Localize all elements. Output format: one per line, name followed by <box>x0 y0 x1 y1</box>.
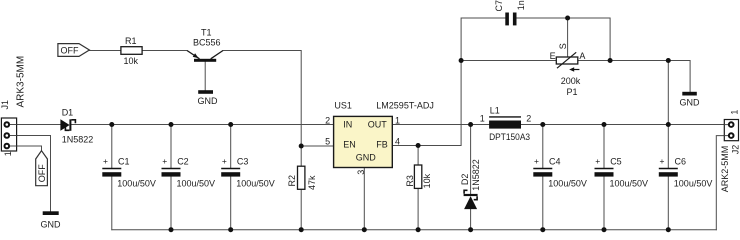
wire IC pin4 FB to feedback riser <box>392 18 505 146</box>
svg-text:4: 4 <box>395 137 400 147</box>
wire R3 bottom <box>417 188 419 229</box>
svg-text:C2: C2 <box>177 157 189 167</box>
wire C2 top <box>170 125 172 169</box>
svg-text:GND: GND <box>41 219 62 229</box>
svg-text:OFF: OFF <box>37 164 47 182</box>
wire C3 bottom <box>230 177 232 230</box>
svg-text:1: 1 <box>730 110 740 115</box>
svg-text:ARK3-5MM: ARK3-5MM <box>16 56 27 108</box>
resistor R2 <box>287 166 317 190</box>
wire C5 top <box>603 125 605 169</box>
capacitor C2 <box>162 156 216 189</box>
svg-text:J1: J1 <box>0 100 10 110</box>
wire EN node to IC pin5 <box>301 145 333 147</box>
svg-text:1: 1 <box>395 116 400 126</box>
wire C2 bottom <box>170 177 172 230</box>
wire R1 to T1 emitter <box>142 50 187 52</box>
svg-text:C3: C3 <box>237 157 249 167</box>
IC US1 LM2595T-ADJ <box>325 101 434 175</box>
svg-text:1N5822: 1N5822 <box>62 134 94 144</box>
wire IC pin1 OUT to L1 pin1 <box>392 124 489 126</box>
svg-text:100u/50V: 100u/50V <box>177 178 216 188</box>
svg-text:GND: GND <box>198 96 219 106</box>
capacitor C4 <box>533 156 587 189</box>
wire C7 right plate to pot riser <box>517 18 611 61</box>
svg-text:1n: 1n <box>516 0 526 10</box>
svg-text:R3: R3 <box>405 175 415 187</box>
wire R2 bottom <box>300 189 302 229</box>
wire C4 top <box>542 125 544 169</box>
svg-text:US1: US1 <box>334 101 352 111</box>
svg-text:S: S <box>558 43 568 49</box>
svg-text:L1: L1 <box>490 106 500 116</box>
svg-text:1: 1 <box>480 113 485 123</box>
ground at J1 <box>41 211 62 229</box>
svg-text:C5: C5 <box>610 157 622 167</box>
svg-text:+: + <box>660 156 665 166</box>
svg-text:5: 5 <box>325 137 330 147</box>
svg-text:A: A <box>579 51 585 61</box>
svg-text:200k: 200k <box>561 76 581 86</box>
wire J2 pin2 to ground rail <box>716 136 724 230</box>
svg-text:E: E <box>550 51 556 61</box>
net flag OFF (top) <box>58 44 90 57</box>
svg-text:100u/50V: 100u/50V <box>548 178 587 188</box>
capacitor C5 <box>595 156 649 189</box>
wire C1 top <box>111 125 113 169</box>
transistor T1 BC556 <box>187 28 223 62</box>
svg-text:D2: D2 <box>460 174 470 186</box>
svg-text:FB: FB <box>376 140 388 150</box>
adjustment arrow <box>572 69 580 71</box>
svg-text:+: + <box>222 156 227 166</box>
wire J1 pin1 to OFF flag <box>17 146 42 151</box>
capacitor C7 <box>494 0 526 25</box>
svg-text:T1: T1 <box>201 28 212 38</box>
wire S wiper riser <box>567 18 569 60</box>
svg-text:OFF: OFF <box>61 46 79 56</box>
net flag OFF (bottom) <box>36 151 48 186</box>
capacitor C3 <box>221 156 275 189</box>
capacitor C6 <box>659 156 713 189</box>
ground top right <box>680 92 701 108</box>
svg-text:C1: C1 <box>118 157 130 167</box>
wire D2 anode to rail <box>470 209 472 230</box>
wire R2 top <box>300 146 302 166</box>
wire T1 collector to EN node <box>223 51 301 147</box>
svg-text:OUT: OUT <box>368 119 388 129</box>
svg-text:100u/50V: 100u/50V <box>674 178 713 188</box>
svg-text:C4: C4 <box>549 157 561 167</box>
svg-text:R1: R1 <box>125 36 137 46</box>
svg-text:IN: IN <box>343 119 352 129</box>
svg-text:+: + <box>162 156 167 166</box>
potentiometer P1 <box>550 43 586 97</box>
resistor R1 <box>121 36 142 66</box>
wire R3 top <box>417 146 419 166</box>
svg-text:BC556: BC556 <box>193 37 221 47</box>
svg-text:100u/50V: 100u/50V <box>236 178 275 188</box>
svg-text:10k: 10k <box>124 56 139 66</box>
ground under T1 <box>198 90 219 106</box>
wire L1 pin2 to J2 pin1 (output rail) <box>521 124 724 126</box>
wire pot line to output rail <box>667 61 669 125</box>
connector J2 ARK2-5MM <box>720 110 740 193</box>
svg-text:GND: GND <box>356 153 377 163</box>
wire C5 bottom <box>603 177 605 230</box>
wire IC pin3 GND to rail <box>363 168 365 230</box>
wire C6 top <box>667 125 669 169</box>
wire J1 pin2 to GND <box>17 136 51 212</box>
wire A-side of pot line to top GND <box>578 61 690 92</box>
wire C3 top <box>230 125 232 169</box>
wire D1 cathode to IC pin2 (input rail) <box>71 124 333 126</box>
svg-text:D1: D1 <box>62 107 74 117</box>
svg-text:+: + <box>534 156 539 166</box>
svg-text:LM2595T-ADJ: LM2595T-ADJ <box>376 101 434 111</box>
svg-text:C7: C7 <box>494 0 504 12</box>
svg-text:1: 1 <box>3 151 13 156</box>
svg-text:2: 2 <box>325 116 330 126</box>
svg-text:J2: J2 <box>730 145 740 155</box>
svg-text:R2: R2 <box>287 175 297 187</box>
connector J1 ARK3-5MM <box>0 56 26 156</box>
resistor R3 <box>405 165 432 188</box>
wire ground rail <box>112 229 717 231</box>
svg-text:10k: 10k <box>422 173 432 188</box>
wire OFF flag to R1 <box>89 50 121 52</box>
svg-text:3: 3 <box>356 170 366 175</box>
svg-text:100u/50V: 100u/50V <box>117 178 156 188</box>
wire J1 pin3 to D1 anode <box>17 124 61 126</box>
capacitor C1 <box>102 156 156 189</box>
diode D1 1N5822 <box>60 107 93 144</box>
svg-text:P1: P1 <box>567 87 578 97</box>
svg-text:C6: C6 <box>675 157 687 167</box>
wire C1 bottom <box>111 177 113 230</box>
inductor L1 DPT150A3 <box>480 106 532 142</box>
wire C6 bottom <box>667 177 669 230</box>
svg-text:47k: 47k <box>307 175 317 190</box>
svg-text:GND: GND <box>680 98 701 108</box>
diode D2 1N5822 <box>460 159 481 209</box>
svg-text:+: + <box>595 156 600 166</box>
svg-text:+: + <box>103 156 108 166</box>
svg-text:DPT150A3: DPT150A3 <box>489 132 530 142</box>
svg-text:2: 2 <box>526 114 531 124</box>
svg-text:1N5822: 1N5822 <box>471 159 481 191</box>
svg-text:ARK2-5MM: ARK2-5MM <box>720 146 730 193</box>
svg-text:EN: EN <box>343 140 356 150</box>
wire E-side of pot line <box>461 60 556 62</box>
wire rail to D2 cathode <box>470 125 472 194</box>
wire T1 base to GND <box>204 62 206 90</box>
svg-text:100u/50V: 100u/50V <box>610 178 649 188</box>
wire C4 bottom <box>542 177 544 230</box>
